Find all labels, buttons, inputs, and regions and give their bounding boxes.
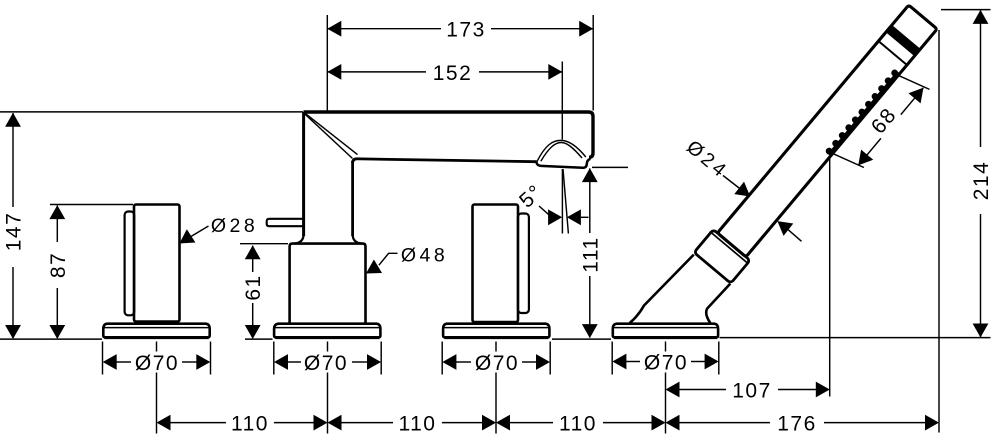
extension 214 top xyxy=(941,9,991,11)
shower body cylinder xyxy=(717,5,937,257)
svg-text:110: 110 xyxy=(231,412,269,435)
black cap band xyxy=(886,25,921,56)
svg-text:107: 107 xyxy=(732,379,772,402)
temperature pin xyxy=(267,219,303,226)
angle line 5deg xyxy=(563,169,568,234)
centre extension lines xyxy=(156,342,158,352)
svg-text:Ø70: Ø70 xyxy=(644,351,688,374)
spout arm top + right face xyxy=(304,112,594,157)
svg-text:Ø48: Ø48 xyxy=(401,245,448,267)
deck tick 61 xyxy=(245,338,273,340)
extension line 173 right x=593 xyxy=(592,15,594,111)
deck extension right (214 bottom) xyxy=(720,337,991,339)
handle 1 body xyxy=(134,205,180,322)
extension line 87 (handle top) xyxy=(50,204,133,206)
svg-text:110: 110 xyxy=(559,412,597,435)
svg-text:87: 87 xyxy=(47,252,70,278)
neck base fillets xyxy=(294,234,304,244)
extension line 173/152 left x=327 xyxy=(326,15,328,111)
transverse line below dots xyxy=(878,41,906,65)
svg-text:Ø70: Ø70 xyxy=(135,352,179,375)
deck tick left (147/87) xyxy=(0,338,102,340)
deck tick mid (111) xyxy=(552,338,611,340)
extension 176 right (shower end) xyxy=(938,30,940,433)
svg-text:Ø70: Ø70 xyxy=(304,352,348,375)
svg-text:Ø28: Ø28 xyxy=(211,215,258,237)
extension 107 (spray start) xyxy=(829,157,831,397)
spout neck left edge xyxy=(302,112,305,236)
flange 2 xyxy=(274,324,380,338)
flange 1 xyxy=(103,324,209,338)
extension line 61 (column top) xyxy=(240,243,288,245)
flange edge extensions xyxy=(102,342,104,375)
nozzle hump outer xyxy=(537,140,586,161)
nozzle hump inner xyxy=(541,143,582,162)
angle line vertical xyxy=(561,169,563,234)
corner bevel lines xyxy=(304,113,352,158)
spout neck right edge xyxy=(351,161,354,236)
svg-text:110: 110 xyxy=(399,412,437,435)
flange 4 xyxy=(613,324,718,338)
spray nozzle strip xyxy=(829,72,898,155)
svg-text:111: 111 xyxy=(579,236,602,272)
extension line 111 (outlet level) xyxy=(592,166,628,168)
svg-text:61: 61 xyxy=(242,274,265,300)
dimension 68 extension lines xyxy=(831,145,864,175)
holder cuff xyxy=(694,229,750,283)
extension line 152 right x=562 xyxy=(561,62,563,140)
spray nozzle dots xyxy=(824,68,899,156)
svg-text:152: 152 xyxy=(433,62,473,85)
outlet block xyxy=(536,159,590,168)
spout inner corner + underside xyxy=(353,159,537,163)
flange 3 xyxy=(443,324,549,338)
svg-text:214: 214 xyxy=(970,161,993,201)
handle 2 lever strip (right side) xyxy=(518,214,529,314)
svg-text:176: 176 xyxy=(777,412,817,435)
spout column (d48) xyxy=(290,244,366,324)
svg-text:Ø70: Ø70 xyxy=(475,352,519,375)
dimension 68 line xyxy=(858,138,880,165)
top reference line (spout height) xyxy=(0,111,303,113)
cuff rim inner line xyxy=(712,233,747,263)
svg-text:173: 173 xyxy=(446,19,486,42)
svg-text:147: 147 xyxy=(3,212,26,252)
